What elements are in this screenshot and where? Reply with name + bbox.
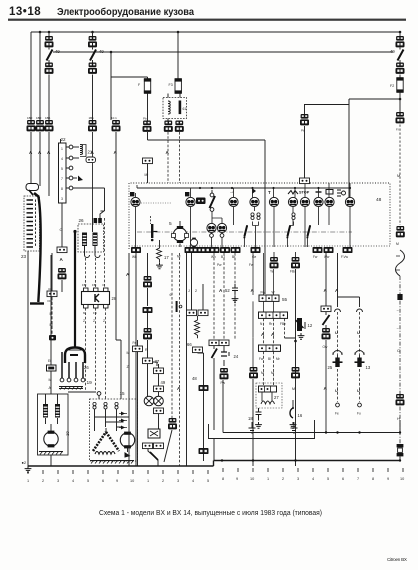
svg-text:4: 4	[72, 479, 74, 483]
svg-text:FBr: FBr	[82, 283, 87, 287]
connector	[154, 386, 164, 392]
internal wires	[95, 409, 129, 431]
svg-text:C: C	[397, 348, 400, 353]
cluster pin pairs	[251, 213, 254, 220]
svg-text:16: 16	[298, 413, 303, 418]
housing	[65, 348, 85, 364]
svg-text:Fw: Fw	[261, 291, 266, 295]
svg-text:~: ~	[397, 326, 400, 331]
coil 21	[73, 145, 93, 157]
svg-text:1B0: 1B0	[36, 116, 42, 120]
diodes	[119, 414, 127, 428]
small box 251	[73, 157, 96, 163]
svg-text:5: 5	[207, 479, 209, 483]
svg-text:6: 6	[102, 479, 104, 483]
svg-text:8: 8	[61, 187, 63, 191]
svg-text:M: M	[396, 242, 399, 246]
dotted enclosure	[129, 183, 390, 249]
lamp: charge	[130, 192, 134, 196]
door lamp switch 16	[290, 400, 303, 428]
connector	[321, 306, 331, 312]
speedo motor icon	[190, 239, 197, 246]
junction dots on buses	[39, 31, 402, 101]
twin headlamps	[144, 396, 154, 406]
svg-text:49: 49	[161, 380, 166, 385]
svg-text:49: 49	[55, 49, 60, 54]
svg-text:4: 4	[61, 157, 63, 161]
top pins	[94, 218, 98, 223]
lamp: choke	[314, 197, 323, 206]
svg-text:10: 10	[65, 431, 70, 436]
lamp: battery icon	[326, 190, 333, 195]
svg-text:17: 17	[164, 255, 169, 260]
svg-text:A: A	[251, 288, 255, 293]
svg-text:1: 1	[61, 147, 63, 151]
relay 28	[82, 258, 117, 399]
svg-text:Pw: Pw	[217, 263, 222, 267]
svg-text:10.1: 10.1	[111, 116, 117, 120]
diode arrow	[73, 176, 83, 182]
svg-text:Схема 1 - модели BX и BX 14,: Схема 1 - модели BX и BX 14, выпущенные …	[99, 510, 322, 517]
connector row left	[27, 120, 36, 131]
svg-text:55: 55	[282, 297, 288, 302]
connector 77	[143, 358, 153, 364]
wire	[92, 75, 94, 121]
columns x337/x359 solenoids	[338, 253, 360, 307]
svg-text:49: 49	[99, 49, 104, 54]
svg-text:FBv: FBv	[280, 322, 286, 326]
svg-text:Fe: Fe	[133, 341, 137, 345]
svg-text:U: U	[335, 388, 338, 393]
dash-dot divider	[137, 231, 352, 233]
svg-text:Pb: Pb	[301, 129, 305, 133]
svg-text:48: 48	[376, 197, 382, 203]
svg-text:5: 5	[169, 221, 172, 227]
svg-text:Bl: Bl	[268, 357, 271, 361]
svg-text:Ww: Ww	[324, 255, 330, 259]
switch blade	[325, 312, 327, 328]
svg-text:13•18: 13•18	[9, 6, 41, 18]
svg-text:T: T	[268, 190, 271, 195]
connector FBt right	[396, 226, 405, 237]
svg-text:23: 23	[21, 254, 27, 259]
svg-text:22: 22	[61, 137, 67, 142]
thick wire from relay 26 down to ignition switch	[74, 232, 76, 349]
earth bar	[39, 452, 63, 455]
svg-text:B.I: B.I	[221, 255, 225, 259]
svg-text:A: A	[38, 150, 42, 155]
fuse blob stack	[397, 444, 404, 447]
rear screen heater 27	[256, 383, 282, 408]
svg-text:3: 3	[297, 477, 299, 481]
svg-text:66: 66	[187, 342, 192, 347]
svg-text:5: 5	[61, 167, 63, 171]
connector Mr mid	[143, 158, 153, 164]
svg-text:A: A	[324, 386, 328, 391]
svg-text:1B5: 1B5	[45, 116, 51, 120]
connector low	[199, 448, 209, 454]
svg-text:M: M	[397, 173, 400, 178]
relay coil 61	[168, 101, 170, 114]
connector 1B0	[45, 36, 54, 47]
svg-text:2: 2	[195, 289, 197, 293]
svg-text:19: 19	[87, 380, 93, 386]
wires into box 15	[120, 394, 122, 399]
svg-text:10: 10	[250, 477, 254, 481]
svg-text:2: 2	[162, 479, 164, 483]
earth inside box	[249, 422, 256, 433]
fuse F2	[399, 75, 401, 79]
connector BG left	[249, 367, 258, 378]
lamp: fuel	[252, 188, 256, 194]
top pins	[93, 402, 96, 409]
drop wires to bottom bus	[213, 439, 215, 461]
svg-text:2: 2	[282, 477, 284, 481]
column wires below cluster row	[135, 253, 137, 466]
header rule	[8, 19, 406, 21]
svg-text:O: O	[60, 227, 63, 232]
inline blob	[397, 294, 402, 300]
illumination lamp pair	[212, 212, 222, 223]
svg-text:F.I: F.I	[396, 128, 399, 132]
resistor 17	[156, 240, 169, 269]
wire x121 column	[116, 132, 121, 394]
svg-text:1: 1	[267, 477, 269, 481]
svg-text:Wh: Wh	[211, 255, 216, 259]
svg-text:Fu: Fu	[357, 412, 361, 416]
svg-text:J: J	[188, 289, 190, 293]
wire	[399, 93, 401, 113]
dashed feed wire down right	[399, 125, 401, 226]
junction to 12	[285, 338, 296, 341]
wire x92 into relay	[92, 218, 94, 232]
svg-text:Fl: Fl	[103, 283, 106, 287]
svg-text:6: 6	[342, 477, 344, 481]
switch output wires with pins	[62, 352, 83, 378]
relay 61 dashed box	[163, 98, 187, 119]
comb connector 23	[21, 196, 40, 259]
svg-text:61: 61	[183, 107, 187, 111]
svg-text:A: A	[271, 332, 275, 337]
svg-text:Br: Br	[232, 255, 236, 259]
wire	[48, 75, 50, 121]
coils	[43, 404, 48, 418]
wire	[31, 32, 49, 120]
lamp feed stubs from internal bus	[136, 183, 351, 198]
svg-text:A: A	[177, 386, 181, 391]
svg-text:~: ~	[397, 308, 400, 313]
svg-text:13: 13	[366, 365, 371, 370]
connector GB	[220, 368, 229, 379]
svg-text:A: A	[166, 150, 170, 155]
svg-text:7: 7	[61, 177, 63, 181]
svg-text:3: 3	[61, 197, 63, 201]
svg-text:26: 26	[84, 365, 89, 370]
svg-text:12: 12	[308, 323, 313, 328]
connector 66a	[143, 307, 153, 313]
svg-text:1: 1	[147, 479, 149, 483]
hook contacts	[335, 309, 363, 312]
supply bus 2	[53, 51, 393, 53]
cluster switch blades	[243, 225, 248, 239]
svg-text:1: 1	[27, 479, 29, 483]
motor	[44, 431, 58, 448]
lamp: wiper icon	[288, 191, 298, 195]
thick cable down left	[38, 197, 40, 302]
svg-text:A: A	[335, 288, 339, 293]
connector B1	[396, 112, 405, 123]
earth inside box 2	[291, 422, 298, 433]
svg-text:21: 21	[88, 150, 93, 155]
svg-text:N: N	[260, 322, 263, 326]
connector FW black	[199, 385, 209, 391]
svg-text:3: 3	[57, 479, 59, 483]
svg-text:Rr: Rr	[269, 322, 273, 326]
wire F1 down to connector	[111, 77, 148, 121]
svg-text:Z: Z	[103, 319, 105, 323]
connector	[396, 36, 405, 47]
cluster internal vertical wires	[136, 207, 351, 248]
svg-text:F: F	[138, 83, 141, 87]
wire	[61, 280, 63, 292]
wire from x49 col	[60, 139, 62, 143]
capacitor 52	[225, 284, 238, 302]
connector FB bottom right	[396, 394, 405, 405]
wires Fe/CBt into cluster	[168, 132, 180, 183]
connector row mid: 10.1 Pb Fe CBt	[112, 120, 121, 131]
pin ends	[336, 403, 340, 407]
svg-text:Pb: Pb	[143, 117, 147, 121]
feed wire into cluster from Pb conn	[148, 132, 266, 294]
right earth bus	[214, 460, 401, 462]
svg-text:Ow: Ow	[323, 345, 328, 349]
svg-text:A: A	[324, 288, 328, 293]
svg-text:4: 4	[312, 477, 314, 481]
strip 55 row2	[259, 312, 288, 318]
coil bars	[82, 233, 87, 247]
svg-text:A: A	[47, 150, 51, 155]
connector pair mid	[154, 368, 164, 374]
wire bus1 to fuse F3	[177, 32, 179, 79]
dash-dot lamp link	[141, 202, 172, 204]
connector 9r	[58, 268, 67, 279]
svg-text:9: 9	[387, 477, 389, 481]
svg-text:F3: F3	[169, 83, 173, 87]
svg-text:Mr: Mr	[145, 173, 150, 177]
solenoid 13	[355, 351, 365, 368]
svg-text:U: U	[335, 330, 338, 335]
svg-text:Fw: Fw	[313, 255, 318, 259]
connector Fe small	[133, 346, 143, 352]
lamp: beam	[337, 190, 341, 196]
connector below cluster x147	[143, 276, 152, 287]
lower connectors Ye FBu	[274, 252, 296, 257]
dash-dot feed	[399, 276, 401, 394]
svg-text:52: 52	[225, 288, 230, 293]
svg-text:8: 8	[222, 477, 224, 481]
svg-text:15: 15	[120, 391, 126, 396]
svg-text:M: M	[49, 378, 52, 382]
left earth bus	[28, 465, 214, 467]
wiper switch lever	[150, 216, 152, 224]
svg-text:18: 18	[248, 416, 253, 421]
capacitor 18	[248, 408, 262, 428]
svg-text:27: 27	[274, 395, 279, 400]
connector FB	[57, 247, 67, 253]
strip22 bottom wire down	[61, 203, 63, 247]
svg-text:A: A	[219, 288, 223, 293]
connector below lamps	[154, 408, 164, 414]
svg-text:48: 48	[192, 376, 197, 381]
wire	[399, 32, 401, 36]
svg-text:4: 4	[192, 479, 194, 483]
wire from relay oval x104 to cluster	[101, 210, 105, 212]
connector row 66	[187, 310, 197, 316]
svg-text:25: 25	[328, 365, 333, 370]
left tick scale	[28, 470, 208, 474]
svg-text:9: 9	[116, 479, 118, 483]
interior light 12	[296, 318, 313, 339]
cable end bar	[30, 302, 44, 304]
svg-text:U: U	[357, 388, 360, 393]
enclosure box bottom middle	[209, 420, 315, 439]
svg-text:9: 9	[236, 477, 238, 481]
svg-text:STOP: STOP	[299, 191, 310, 195]
fuse F3	[175, 78, 182, 94]
svg-text:Mr: Mr	[276, 357, 281, 361]
svg-text:Ei: Ei	[48, 359, 51, 363]
svg-text:Z: Z	[93, 319, 95, 323]
inline connector	[49, 335, 56, 340]
strip 22 body	[59, 137, 67, 203]
stator windings	[93, 432, 106, 451]
wires below left connector row	[31, 132, 49, 196]
connector GB	[322, 328, 331, 339]
lamp: brake	[185, 192, 189, 196]
horizontal link y432	[223, 432, 400, 434]
svg-text:F2: F2	[390, 84, 394, 88]
svg-text:●2: ●2	[22, 460, 27, 465]
earth strip under 19	[59, 387, 83, 390]
wavy wire symbol	[396, 250, 405, 276]
pin 188 wire right then down	[73, 188, 105, 211]
svg-text:A: A	[261, 332, 265, 337]
svg-text:7: 7	[357, 477, 359, 481]
bottom hooks	[85, 246, 101, 258]
earth bar in 15	[90, 461, 134, 464]
inline relay oval	[26, 184, 39, 196]
svg-text:Fe: Fe	[335, 412, 339, 416]
svg-text:3: 3	[177, 479, 179, 483]
svg-text:A: A	[60, 257, 64, 262]
svg-text:1B1: 1B1	[89, 116, 95, 120]
connector 66 out	[193, 347, 203, 353]
connector 1B1	[88, 120, 97, 131]
strip 55 row1	[259, 295, 288, 302]
connector pair	[209, 340, 219, 346]
svg-text:49: 49	[390, 49, 395, 54]
svg-text:26: 26	[79, 218, 85, 223]
thick cable from relay to comb	[34, 193, 39, 197]
svg-text:A: A	[29, 150, 33, 155]
connector x172 low	[168, 418, 177, 429]
svg-text:M: M	[127, 351, 130, 355]
right tick scale	[223, 468, 403, 472]
column x326	[325, 253, 327, 307]
svg-text:5: 5	[327, 477, 329, 481]
supply bus 1	[31, 31, 400, 33]
svg-text:FBl: FBl	[92, 283, 97, 287]
door switch	[213, 346, 215, 362]
cluster internal feed bus	[137, 187, 350, 189]
svg-text:F.Vw: F.Vw	[341, 255, 349, 259]
svg-text:FB: FB	[93, 311, 97, 315]
switch blade to bus	[148, 449, 158, 460]
svg-text:6: 6	[170, 293, 172, 297]
svg-text:M: M	[292, 387, 295, 391]
motor 5	[169, 221, 189, 259]
connector	[88, 63, 97, 74]
capacitor 24	[221, 346, 239, 366]
connector FBr	[291, 367, 300, 378]
inline fuse EJ	[47, 365, 57, 371]
relay/motor box 10	[38, 394, 71, 455]
strip row3	[259, 345, 281, 351]
connector BG	[143, 328, 152, 339]
svg-text:A: A	[114, 150, 118, 155]
bus 3 right	[304, 99, 400, 105]
wire from bus2 to fuse F1	[111, 52, 148, 79]
switch 49	[399, 48, 401, 63]
svg-text:2: 2	[42, 479, 44, 483]
rotor motor	[120, 432, 134, 449]
heater resistor 66	[195, 316, 200, 338]
wire from x93 column down	[92, 132, 94, 218]
svg-text:Citroen BX: Citroen BX	[387, 557, 407, 562]
solenoid 25	[333, 351, 343, 368]
earth point +2	[22, 460, 32, 472]
switch 49	[48, 48, 50, 63]
connector	[396, 63, 405, 74]
connector	[45, 63, 54, 74]
svg-text:1B0: 1B0	[27, 116, 33, 120]
svg-text:5: 5	[87, 479, 89, 483]
dimmer switch in cluster	[211, 190, 213, 212]
svg-text:U: U	[357, 330, 360, 335]
flasher unit box	[148, 429, 160, 438]
svg-text:R: R	[145, 348, 148, 352]
thin wire below comb to bottom bus	[27, 251, 29, 466]
connector 22 dark	[196, 198, 206, 205]
svg-text:Z: Z	[83, 319, 85, 323]
fuse F1	[144, 78, 151, 94]
svg-text:10: 10	[130, 479, 134, 483]
svg-text:W: W	[272, 291, 275, 295]
switch 49	[92, 48, 94, 63]
svg-text:Электрооборудование кузова: Электрооборудование кузова	[57, 6, 194, 18]
connectors under flasher	[143, 443, 153, 449]
wire	[92, 32, 94, 36]
svg-text:24: 24	[234, 354, 239, 359]
strip pin circles	[66, 147, 69, 188]
column x52: connector Ui	[51, 253, 53, 291]
wires relay to connector row	[168, 94, 180, 122]
svg-text:8: 8	[372, 477, 374, 481]
svg-text:10: 10	[400, 477, 404, 481]
connector 1B0	[88, 36, 97, 47]
